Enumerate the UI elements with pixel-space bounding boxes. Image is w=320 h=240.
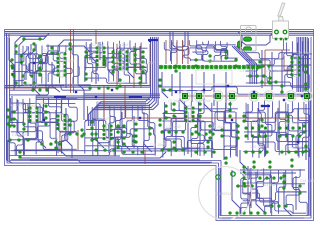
- wire red: [236, 185, 252, 187]
- pads: [32, 89, 49, 92]
- wire: [46, 46, 90, 60]
- wire: [26, 44, 31, 80]
- switch S1 body: [273, 3, 289, 39]
- wire red: [187, 40, 189, 64]
- wire red: [95, 30, 97, 44]
- wire red: [176, 40, 178, 64]
- wire: [122, 112, 130, 150]
- pads row: [69, 133, 86, 136]
- svg-text:C9 10uF: C9 10uF: [168, 99, 181, 103]
- wires region Lmidh: [8, 85, 91, 95]
- pads row: [161, 149, 185, 152]
- svg-text:C19 10uF: C19 10uF: [190, 145, 205, 149]
- svg-text:C27 10uF: C27 10uF: [240, 69, 255, 73]
- wire red: [103, 86, 105, 120]
- svg-text:C4 10uF: C4 10uF: [116, 43, 129, 47]
- wire mid bus fan: [88, 37, 158, 126]
- wire: [204, 72, 212, 112]
- wires region B2h: [85, 120, 156, 154]
- svg-text:C6 10uF: C6 10uF: [34, 101, 47, 105]
- silk text labels: [10, 43, 315, 187]
- wire: [33, 55, 40, 95]
- wire red: [144, 150, 146, 164]
- wires region B4h: [243, 109, 310, 152]
- wire red: [265, 49, 290, 51]
- wire: [7, 140, 9, 160]
- wire vertical bus right: [297, 37, 307, 92]
- pads row: [195, 151, 216, 154]
- wire thick: [148, 39, 158, 41]
- pads row: [13, 75, 34, 78]
- scattered pads: [9, 43, 308, 169]
- wires region A1h: [13, 51, 59, 81]
- pads: [123, 125, 126, 146]
- svg-text:C17 10uF: C17 10uF: [100, 143, 115, 147]
- pads pair: [262, 65, 271, 68]
- pads col: [112, 51, 115, 74]
- wire: [20, 152, 166, 158]
- pads row: [281, 151, 305, 154]
- svg-text:C2 10uF: C2 10uF: [44, 49, 57, 53]
- wire red: [73, 30, 75, 94]
- wire long horiz: [5, 86, 150, 88]
- wire thick: [130, 96, 142, 98]
- pads: [261, 81, 278, 84]
- wire: [58, 40, 92, 54]
- wire: [55, 110, 57, 142]
- wire: [247, 166, 249, 206]
- wires region A2v: [85, 40, 147, 83]
- pad column: [11, 67, 14, 76]
- wire: [187, 112, 189, 154]
- pads row: [95, 149, 116, 152]
- svg-text:C24 10uF: C24 10uF: [300, 179, 315, 183]
- svg-text:C18 10uF: C18 10uF: [150, 143, 165, 147]
- wire: [232, 170, 240, 216]
- IC U8: [291, 56, 301, 77]
- wires region B1h: [8, 99, 77, 150]
- wire: [163, 112, 165, 150]
- svg-text:C21 10uF: C21 10uF: [288, 145, 303, 149]
- silk box: [196, 70, 232, 84]
- svg-text:C7 10uF: C7 10uF: [96, 117, 109, 121]
- wire: [277, 108, 279, 150]
- wire red: [171, 40, 173, 64]
- svg-text:C10 10uF: C10 10uF: [196, 99, 211, 103]
- svg-text:C15 10uF: C15 10uF: [12, 133, 27, 137]
- wire: [305, 104, 307, 160]
- IC U3: [119, 50, 129, 71]
- wire: [213, 74, 215, 106]
- wire: [171, 74, 173, 96]
- svg-text:C8 10uF: C8 10uF: [126, 119, 139, 123]
- wire: [287, 104, 289, 152]
- pads: [135, 123, 138, 144]
- pads row: [191, 133, 215, 136]
- wires region A3v: [164, 40, 228, 61]
- pads pair: [163, 89, 172, 92]
- wire perimeter ring: [7, 37, 219, 163]
- wire bus loop inner: [173, 32, 185, 48]
- pad ring: [216, 175, 220, 179]
- pads pair: [305, 65, 308, 74]
- svg-text:C11 10uF: C11 10uF: [248, 121, 263, 125]
- wire: [175, 116, 177, 152]
- svg-text:C14 10uF: C14 10uF: [140, 61, 155, 65]
- wires region A3h: [190, 45, 238, 61]
- svg-text:C20 10uF: C20 10uF: [250, 145, 265, 149]
- wire: [128, 48, 134, 78]
- wire thick: [54, 96, 66, 98]
- svg-text:M3 HOLE: M3 HOLE: [215, 191, 233, 196]
- wire: [162, 72, 168, 98]
- pads: [283, 175, 286, 190]
- connector J1 silk: [241, 26, 257, 52]
- wire: [139, 46, 141, 70]
- wires region B3v: [163, 100, 237, 158]
- wire red: [264, 50, 266, 86]
- wire mid horizontals: [84, 94, 160, 98]
- wire: [18, 100, 24, 138]
- wire: [257, 108, 259, 144]
- IC U2: [96, 46, 106, 67]
- wire: [295, 176, 297, 210]
- wire diagonal bundle: [232, 46, 257, 84]
- wire top bus detour: [238, 32, 274, 46]
- wire mid bus 2: [36, 96, 150, 99]
- pads: [299, 185, 302, 195]
- wire top bus: [5, 32, 314, 36]
- svg-text:C5 10uF: C5 10uF: [10, 103, 23, 107]
- pads: [173, 103, 176, 118]
- wire red: [116, 44, 118, 86]
- wire: [45, 58, 47, 90]
- svg-text:C25 10uF: C25 10uF: [166, 125, 181, 129]
- pad ring: [231, 172, 235, 176]
- wire: [52, 62, 60, 92]
- wires region A1v: [21, 44, 79, 84]
- pads: [39, 55, 42, 76]
- wire: [11, 96, 13, 126]
- wire perimeter ring 2: [10, 38, 222, 161]
- wire: [240, 169, 305, 171]
- svg-text:C26 10uF: C26 10uF: [210, 125, 225, 129]
- svg-text:C22 10uF: C22 10uF: [246, 169, 261, 173]
- wires region EXTv: [241, 168, 307, 216]
- pads row: [229, 212, 267, 215]
- wire: [14, 150, 120, 156]
- pads: [13, 111, 16, 128]
- wires region Ch: [9, 149, 214, 162]
- board outline: [5, 30, 314, 221]
- wire: [271, 52, 273, 90]
- IC U4: [29, 106, 39, 123]
- pads row: [259, 177, 283, 180]
- wires region EXTh: [242, 175, 307, 213]
- wire: [222, 217, 304, 219]
- pads row: [89, 87, 119, 90]
- pads: [209, 125, 212, 140]
- svg-text:C16 10uF: C16 10uF: [52, 137, 67, 141]
- wire red: [133, 46, 135, 88]
- wire: [180, 72, 188, 108]
- wire: [65, 58, 67, 88]
- pads col: [134, 49, 137, 72]
- wire: [240, 150, 248, 184]
- pads row: [123, 151, 144, 154]
- svg-text:C28 10uF: C28 10uF: [266, 69, 281, 73]
- wire red: [249, 192, 251, 206]
- pads row: [279, 135, 301, 138]
- svg-text:C23 10uF: C23 10uF: [262, 183, 277, 187]
- wire: [133, 116, 135, 148]
- svg-text:C30 10uF: C30 10uF: [24, 83, 39, 87]
- wires region A4v: [285, 41, 309, 89]
- wire: [7, 33, 211, 163]
- pad pair: [23, 38, 42, 41]
- wire red: [5, 87, 57, 89]
- wire: [109, 116, 111, 146]
- wire corner loop: [15, 34, 49, 89]
- wire: [309, 100, 311, 216]
- pads row: [245, 151, 269, 154]
- pad column: [20, 55, 23, 64]
- wire: [247, 104, 249, 140]
- wires region B1v: [9, 96, 77, 156]
- pads: [229, 103, 232, 118]
- pads row: [271, 205, 288, 208]
- pads row: [41, 143, 62, 146]
- pads: [91, 121, 94, 142]
- svg-text:C32 10uF: C32 10uF: [110, 81, 125, 85]
- pads row: [245, 135, 267, 138]
- connector J2 row: [159, 65, 259, 69]
- wire: [78, 56, 84, 120]
- pads row: [237, 185, 254, 188]
- pads row: [161, 131, 185, 134]
- wire: [144, 112, 152, 152]
- wires region B3h: [162, 109, 238, 150]
- wire thick: [262, 105, 270, 107]
- wire: [108, 46, 114, 76]
- pads: [7, 109, 10, 126]
- wire red: [149, 44, 151, 86]
- power pads row: [180, 91, 312, 101]
- wire: [30, 44, 35, 76]
- pads row: [245, 127, 267, 130]
- IC U5: [57, 114, 67, 131]
- wires region B2v: [85, 104, 155, 156]
- wire: [22, 46, 27, 85]
- IC U1: [57, 52, 67, 77]
- wire: [199, 116, 201, 156]
- pads row: [279, 127, 301, 130]
- svg-text:C29 10uF: C29 10uF: [296, 51, 311, 55]
- wire: [256, 172, 264, 212]
- wire red: [59, 132, 61, 152]
- pads: [237, 125, 240, 140]
- svg-text:C3 10uF: C3 10uF: [92, 43, 105, 47]
- wire: [284, 172, 292, 216]
- wire red: [283, 39, 285, 50]
- wire: [38, 108, 46, 148]
- wire: [119, 44, 121, 66]
- wires region A2h: [84, 48, 147, 83]
- svg-text:C12 10uF: C12 10uF: [284, 121, 299, 125]
- wire: [223, 116, 225, 160]
- wires region A4h: [245, 53, 312, 87]
- pads col: [142, 51, 145, 74]
- IC U6: [103, 124, 113, 141]
- wire: [267, 104, 269, 148]
- svg-text:C33 10uF: C33 10uF: [206, 59, 221, 63]
- vias: [33, 40, 303, 143]
- wire: [225, 72, 227, 108]
- wire: [269, 174, 271, 206]
- wires region RBh: [163, 86, 309, 94]
- wires region B4v: [246, 101, 309, 159]
- wire: [191, 74, 193, 102]
- wire: [297, 108, 299, 156]
- wire red: [124, 86, 126, 118]
- wire corner loop 2: [19, 35, 47, 88]
- wire red: [70, 30, 72, 94]
- wire red: [126, 117, 308, 119]
- wire: [30, 159, 200, 161]
- connector J1 pads: [238, 37, 252, 51]
- pads: [45, 105, 48, 126]
- wire: [261, 50, 263, 88]
- pads: [165, 105, 168, 120]
- wire red: [165, 40, 167, 64]
- wire: [96, 112, 104, 148]
- wire: [66, 108, 72, 158]
- pads: [243, 166, 246, 185]
- wire: [27, 104, 29, 136]
- wire: [9, 34, 14, 90]
- wire: [211, 112, 213, 158]
- svg-text:C13 10uF: C13 10uF: [60, 59, 75, 63]
- mounting circle: [199, 167, 252, 220]
- wire: [235, 112, 237, 156]
- svg-text:C31 10uF: C31 10uF: [64, 83, 79, 87]
- pads row: [9, 139, 30, 142]
- wire red: [77, 130, 79, 150]
- IC U7: [185, 106, 195, 123]
- pads row: [15, 82, 36, 85]
- pads: [249, 75, 266, 78]
- wire: [281, 50, 283, 92]
- pads: [199, 103, 202, 118]
- wire: [240, 172, 296, 174]
- wire: [99, 42, 101, 60]
- wire: [219, 168, 221, 216]
- wire red: [185, 95, 307, 97]
- wire red: [182, 40, 184, 64]
- wire red: [284, 56, 296, 70]
- wire: [250, 168, 252, 208]
- switch S1 pads: [275, 30, 288, 40]
- wire red: [140, 44, 142, 88]
- svg-text:C1 10uF: C1 10uF: [20, 49, 33, 53]
- wire bus loop: [170, 32, 188, 51]
- wire: [90, 44, 96, 84]
